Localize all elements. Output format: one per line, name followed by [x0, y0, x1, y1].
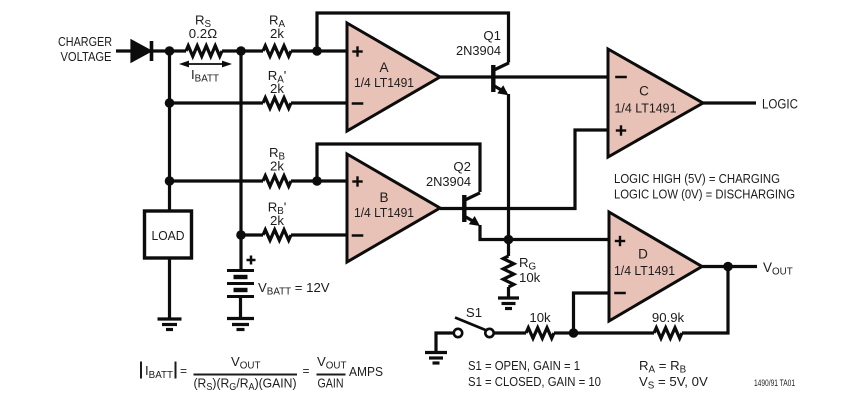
wire A feedback from Q1 collector to A+ node — [317, 13, 509, 63]
wire B output to Q2 base then up to C plus — [440, 130, 608, 209]
logic truth text — [614, 171, 795, 202]
svg-text:LOAD: LOAD — [152, 228, 185, 243]
svg-text:LOGIC LOW (0V) = DISCHARGING: LOGIC LOW (0V) = DISCHARGING — [614, 187, 795, 202]
svg-text:D: D — [638, 247, 648, 262]
wire junction up to D minus — [574, 293, 610, 333]
svg-text:2N3904: 2N3904 — [456, 43, 501, 58]
wire RB to B+ — [291, 179, 347, 182]
gain notes text — [468, 358, 601, 389]
op-amp U1D — [609, 212, 702, 321]
svg-text:VOLTAGE: VOLTAGE — [61, 49, 112, 64]
wire RB row — [170, 179, 264, 182]
wire battery to ground — [239, 297, 242, 318]
svg-text:S1: S1 — [466, 305, 482, 320]
switch S1 — [454, 318, 494, 338]
svg-text:2N3904: 2N3904 — [426, 174, 471, 189]
svg-text:Q2: Q2 — [453, 159, 471, 174]
node LOGIC label — [762, 97, 798, 112]
ground below LOAD — [158, 319, 182, 330]
node junction at diode output — [165, 46, 175, 56]
node CHARGER VOLTAGE label — [58, 34, 112, 64]
node junction emitters join — [504, 235, 514, 245]
svg-text:=: = — [303, 364, 310, 378]
node junction RB left — [165, 176, 175, 186]
svg-text:C: C — [639, 84, 649, 99]
wire Q1 emitter down — [507, 94, 510, 240]
resistor RG 10k — [507, 240, 510, 257]
svg-text:0.2Ω: 0.2Ω — [189, 26, 217, 41]
resistor RA 2k — [263, 46, 291, 57]
op-amp U1C — [608, 49, 703, 157]
wire D feedback down from output — [682, 267, 728, 334]
svg-text:2k: 2k — [270, 159, 284, 174]
svg-text:1/4 LT1491: 1/4 LT1491 — [615, 101, 677, 116]
resistor RS 0.2ohm — [186, 46, 222, 57]
wire vertical left rail from diode node down to LOAD — [168, 51, 171, 211]
formula IBATT equation — [141, 354, 383, 393]
transistor Q2 2N3904 — [464, 193, 480, 226]
svg-text:S1 = CLOSED, GAIN = 10: S1 = CLOSED, GAIN = 10 — [468, 374, 601, 389]
node junction right of Rs — [236, 46, 246, 56]
svg-text:1/4 LT1491: 1/4 LT1491 — [354, 75, 414, 90]
wire charger input — [116, 49, 133, 52]
wire diode to Rs — [153, 49, 186, 52]
transistor Q1 2N3904 — [493, 63, 509, 95]
svg-text:CHARGER: CHARGER — [58, 34, 112, 49]
node junction gain-set — [569, 328, 579, 338]
wire 90.9k to junction — [574, 331, 655, 334]
IBATT current arrow — [179, 61, 232, 68]
wire D output — [702, 265, 757, 268]
LOAD box — [145, 211, 192, 258]
wire switch to ground — [436, 333, 454, 352]
resistor RB' 2k — [263, 230, 291, 241]
wire A output to Q1 base and C minus — [440, 75, 608, 78]
diode D1 — [132, 42, 150, 61]
wire 10k to switch — [494, 331, 526, 334]
part number tag — [754, 378, 795, 388]
svg-text:GAIN: GAIN — [318, 376, 344, 391]
svg-text:RA = RB: RA = RB — [639, 358, 687, 376]
wire RA' to A minus — [291, 101, 347, 104]
wire C output — [703, 101, 756, 104]
node junction at D output — [723, 262, 733, 272]
svg-text:1/4 LT1491: 1/4 LT1491 — [354, 205, 414, 220]
ground below RG — [498, 298, 519, 309]
battery VBATT — [227, 271, 254, 297]
resistor 10k gain — [526, 328, 554, 339]
svg-text:2k: 2k — [270, 81, 284, 96]
wire B feedback from Q2 collector to B+ node — [317, 144, 480, 192]
node junction RB' left — [236, 230, 246, 240]
wire Q2 emitter down and right to D+ — [480, 225, 608, 240]
wire RB' to B minus — [291, 233, 347, 236]
op-amp U1A — [347, 23, 440, 131]
node junction at B+ — [312, 176, 322, 186]
svg-text:A: A — [379, 60, 388, 75]
node junction RA' left — [165, 98, 175, 108]
svg-text:10k: 10k — [529, 310, 551, 325]
side conditions text — [639, 358, 708, 392]
svg-text:10k: 10k — [519, 270, 541, 285]
node junction at A+ — [312, 46, 322, 56]
resistor RA' 2k — [263, 98, 291, 109]
wire RB' row — [241, 233, 263, 236]
ground at S1 — [425, 353, 447, 364]
wire vertical rail from Rs right node down to battery — [239, 51, 242, 270]
svg-text:90.9k: 90.9k — [652, 310, 685, 325]
wire 10k to junction — [554, 331, 569, 334]
svg-text:2k: 2k — [270, 213, 284, 228]
wire LOAD to ground — [168, 258, 171, 318]
ground below battery — [227, 319, 254, 330]
op-amp U1B — [347, 154, 440, 262]
svg-text:LOGIC HIGH (5V) = CHARGING: LOGIC HIGH (5V) = CHARGING — [614, 171, 780, 186]
svg-text:B: B — [379, 190, 388, 205]
svg-text:2k: 2k — [270, 26, 284, 41]
svg-text:S1 = OPEN, GAIN = 1: S1 = OPEN, GAIN = 1 — [468, 358, 580, 373]
wire Ra to op-amp A + — [291, 49, 347, 52]
wire RA' row — [170, 101, 264, 104]
svg-text:1/4 LT1491: 1/4 LT1491 — [614, 263, 675, 278]
svg-text:Q1: Q1 — [483, 28, 501, 43]
node VOUT label — [763, 260, 793, 278]
resistor 90.9k feedback — [654, 328, 682, 339]
resistor RB 2k — [263, 176, 291, 187]
svg-text:LOGIC: LOGIC — [762, 97, 798, 112]
svg-text:AMPS: AMPS — [349, 364, 383, 379]
svg-text:1490/91 TA01: 1490/91 TA01 — [754, 378, 795, 388]
svg-text:=: = — [180, 364, 187, 378]
wire Rs to Ra — [222, 49, 263, 52]
